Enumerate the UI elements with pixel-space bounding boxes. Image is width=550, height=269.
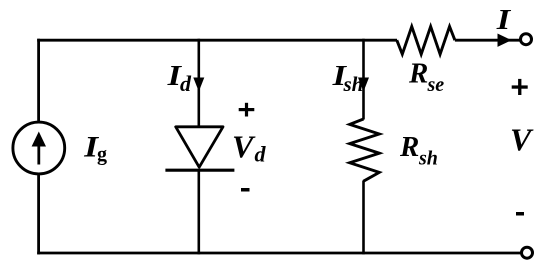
wire shunt branch lower [362, 181, 365, 255]
label Id [166, 60, 192, 96]
svg-text:V: V [232, 129, 256, 165]
label Ish [331, 60, 363, 96]
wire diode branch lower [198, 170, 201, 254]
label Ig [83, 130, 107, 165]
wire top bus [37, 39, 397, 42]
label Rse [408, 58, 444, 96]
svg-text:se: se [427, 74, 445, 96]
svg-text:R: R [399, 131, 419, 163]
terminal positive [521, 34, 532, 45]
label Rsh [399, 131, 438, 169]
label Vd [232, 129, 267, 167]
wire left branch upper [37, 39, 40, 123]
label minus of V [516, 212, 524, 216]
resistor Rsh [350, 119, 380, 181]
wire top-right segment from Rse to positive terminal [455, 39, 521, 42]
label plus of Vd [239, 103, 255, 117]
label minus of Vd [241, 188, 250, 192]
wire bottom bus [37, 252, 521, 255]
wire diode branch upper [198, 39, 201, 127]
current arrow Ish [358, 78, 369, 92]
diode D [165, 127, 234, 170]
terminal negative [522, 247, 533, 258]
svg-text:d: d [180, 71, 192, 96]
svg-text:sh: sh [418, 147, 438, 169]
wire shunt branch upper [362, 39, 365, 120]
resistor Rse [397, 27, 455, 55]
svg-text:d: d [255, 141, 267, 166]
wire left branch lower [37, 174, 40, 254]
label plus of V [512, 79, 528, 95]
svg-text:I: I [496, 4, 513, 36]
current arrow I [498, 34, 512, 47]
svg-text:V: V [510, 121, 534, 157]
svg-text:g: g [97, 144, 107, 166]
current source Ig [13, 122, 65, 174]
svg-text:R: R [408, 58, 428, 90]
svg-text:sh: sh [343, 72, 364, 96]
current arrow Id [193, 78, 204, 92]
